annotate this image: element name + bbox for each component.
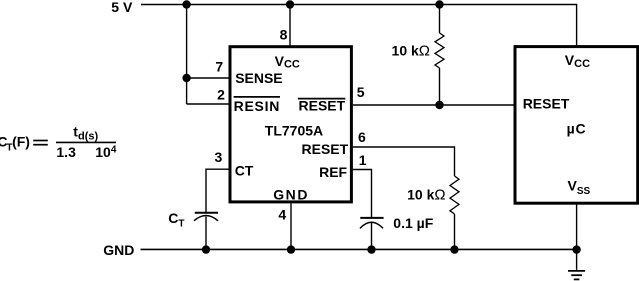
wire pin 1 REF to C2 <box>353 170 372 218</box>
wire pin 5 RESET to uC <box>353 104 514 106</box>
wire pin 7 SENSE <box>187 77 230 79</box>
svg-text:(F): (F) <box>12 133 30 149</box>
svg-text:7: 7 <box>215 59 223 75</box>
svg-text:REF: REF <box>319 164 347 180</box>
node: rail / R1 <box>435 0 443 8</box>
node: rail / pin8 <box>286 0 294 8</box>
wire C2 bottom lead <box>371 223 373 249</box>
wire pin 4 GND <box>290 204 292 250</box>
svg-text:µC: µC <box>567 120 587 136</box>
svg-text:1.3: 1.3 <box>56 144 76 160</box>
svg-text:SENSE: SENSE <box>235 70 282 86</box>
node: GND / VSS ground <box>572 245 580 253</box>
node: GND / C2 <box>367 245 375 253</box>
svg-text:RESIN: RESIN <box>234 98 281 114</box>
IC U2 microcontroller box <box>515 47 638 204</box>
node: GND / C1 <box>202 245 210 253</box>
svg-text:GND: GND <box>103 242 134 258</box>
wire ground stem <box>576 249 578 269</box>
svg-text:3: 3 <box>215 149 223 165</box>
svg-text:8: 8 <box>280 27 288 43</box>
wire left vertical from 5V rail <box>186 5 188 105</box>
resistor R1 10k zigzag <box>435 33 444 68</box>
IC U1 TL7705A box <box>230 47 351 202</box>
wire pin 3 CT to C1 <box>206 169 229 213</box>
wire resistor R1 bottom lead <box>439 68 441 105</box>
wire resistor R2 bottom lead <box>454 214 456 249</box>
node: RESET / R1 <box>435 101 443 109</box>
wire uC VSS lead <box>576 204 578 250</box>
svg-text:6: 6 <box>358 129 366 145</box>
wire resistor R1 top lead <box>439 5 441 34</box>
wire 5V top rail <box>141 5 577 47</box>
svg-text:10 kΩ: 10 kΩ <box>392 42 430 59</box>
U1 RESET overline <box>298 98 345 100</box>
resistor R2 10k zigzag <box>450 176 459 214</box>
wire pin 8 VCC <box>289 5 291 47</box>
svg-text:2: 2 <box>217 86 225 102</box>
node: GND / R2 <box>450 245 458 253</box>
wire pin 2 RESIN <box>187 103 230 105</box>
svg-text:RESET: RESET <box>302 141 349 157</box>
svg-text:4: 4 <box>111 144 117 155</box>
U1 RESIN overline <box>234 96 280 98</box>
capacitor C2 0.1uF symbol <box>360 218 384 229</box>
svg-text:1: 1 <box>359 152 367 168</box>
node junction dots <box>182 0 580 254</box>
svg-text:RESET: RESET <box>523 95 570 111</box>
node: GND / pin4 <box>287 245 295 253</box>
formula equals sign <box>33 140 48 142</box>
svg-text:10: 10 <box>95 144 111 160</box>
ground symbol <box>568 271 585 280</box>
svg-text:5: 5 <box>357 84 365 100</box>
wire pin 6 RESET to R2 <box>353 147 455 176</box>
svg-text:4: 4 <box>278 206 286 222</box>
capacitor C1 CT symbol <box>194 213 218 221</box>
svg-text:RESET: RESET <box>299 98 346 114</box>
node: rail / left vertical <box>182 0 190 8</box>
node: SENSE junction <box>182 74 190 82</box>
svg-text:5 V: 5 V <box>111 0 133 15</box>
svg-text:10 kΩ: 10 kΩ <box>407 187 445 204</box>
svg-text:TL7705A: TL7705A <box>265 123 323 139</box>
wire C1 bottom lead <box>205 217 207 250</box>
svg-text:0.1 µF: 0.1 µF <box>393 215 433 231</box>
svg-text:CT: CT <box>235 163 254 179</box>
formula fraction bar <box>56 141 116 143</box>
svg-text:GND: GND <box>273 187 309 203</box>
wire GND bottom rail <box>141 248 577 250</box>
